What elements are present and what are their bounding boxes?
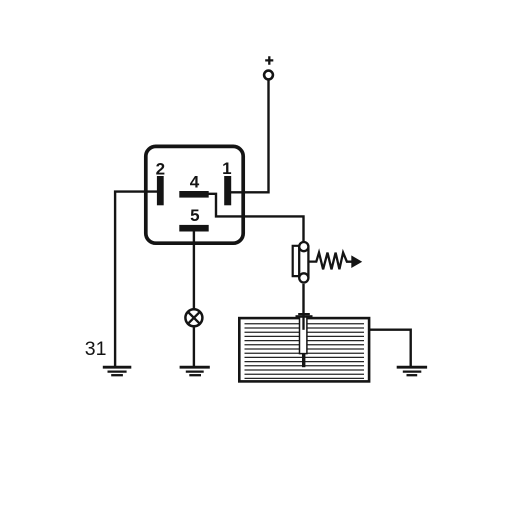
svg-text:31: 31 [85, 338, 107, 360]
wire: lamp to ground [193, 326, 195, 366]
wire: pin 4 to pressure switch [208, 193, 304, 243]
pressure switch S1: lower contact roller [299, 273, 308, 282]
relay pin 5 terminal bar [179, 225, 208, 232]
ground (left, terminal 31) [103, 367, 132, 375]
glow plug body tube [300, 317, 307, 354]
svg-text:5: 5 [190, 206, 199, 225]
plus sign [265, 56, 273, 64]
tank liquid hatching [245, 324, 365, 379]
glow plug flange (narrow top) [298, 313, 310, 315]
pressure switch S1: bracket [293, 246, 301, 276]
glow plug heater rod [302, 354, 305, 368]
pressure switch S1: upper contact roller [299, 242, 308, 251]
ground (below lamp) [180, 367, 210, 375]
pressure switch S1: plunger capsule sides [299, 247, 308, 278]
pressure switch S1: actuation arrow [351, 255, 362, 268]
engine block / tank outline [239, 318, 369, 381]
ground (right of tank) [397, 367, 427, 375]
wire: switch to glow plug electrode [302, 284, 304, 313]
wire: pin 5 down to lamp [193, 232, 195, 310]
relay pin 4 terminal bar [179, 191, 208, 198]
svg-text:1: 1 [222, 159, 231, 178]
svg-text:4: 4 [190, 173, 200, 192]
relay U1 outline [146, 146, 243, 243]
relay pin 2 terminal bar [157, 176, 164, 205]
relay pin 1 terminal bar [224, 176, 231, 205]
battery + terminal circle [264, 71, 273, 80]
glow plug flange (wide) [296, 315, 313, 317]
glow plug electrode [302, 313, 304, 330]
wire: tank to right ground [370, 329, 411, 367]
pressure switch S1: actuating spring [308, 253, 351, 270]
svg-text:2: 2 [156, 160, 165, 179]
wire: left rail from pin 2 (terminal 31) [115, 190, 159, 366]
indicator lamp [185, 309, 202, 326]
wire: pin 1 to battery + [231, 80, 269, 194]
